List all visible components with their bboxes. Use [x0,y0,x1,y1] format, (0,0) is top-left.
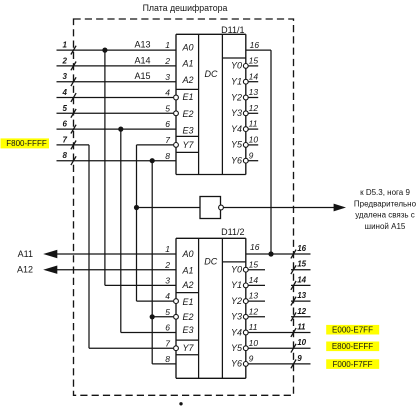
wire D11/2 E2 branch [152,316,173,318]
external stub pin 15 [291,269,311,271]
svg-text:8: 8 [165,151,170,161]
D11/2 pin 9 stub/wire [249,363,311,365]
arrowhead to D5.3 [334,204,346,212]
svg-text:9: 9 [297,354,302,363]
svg-text:10: 10 [297,338,306,347]
svg-text:7: 7 [63,135,68,144]
D11/1 pin 11 stub [249,128,259,130]
arrowhead A11 [43,250,57,258]
D11/1 input bubble row 4 [174,95,179,100]
svg-text:10: 10 [249,135,259,145]
svg-text:E3: E3 [183,325,194,335]
svg-text:A1: A1 [182,265,194,275]
external stub pin 13 [291,300,311,302]
svg-text:13: 13 [297,291,306,300]
wire connector pin 1 row [57,49,177,51]
wire D11/2 A2 row [105,284,176,286]
svg-text:4: 4 [62,88,68,97]
decoder U D11/2 body [176,238,246,378]
D11/2 output bubble Y5 [243,346,248,351]
connector slash right pin 16 [291,250,296,259]
connector pin slash 5 [71,109,76,118]
svg-text:DC: DC [205,69,218,79]
connector pin slash 7 [71,141,76,150]
connector pin slash 1 [71,46,76,55]
svg-text:6: 6 [165,323,170,333]
svg-text:Плата дешифратора: Плата дешифратора [143,3,228,13]
svg-text:E1: E1 [183,92,194,102]
svg-text:11: 11 [249,119,258,129]
wire vertical row8 down to D11/2 pin8 [151,161,153,364]
svg-text:Y3: Y3 [231,312,242,322]
svg-text:6: 6 [63,120,68,129]
D11/1 input bubble row 7 [174,143,179,148]
D11/1 output bubble Y2 [243,95,248,100]
D11/1 output bubble Y1 [243,79,248,84]
svg-text:A0: A0 [182,249,194,259]
svg-text:16: 16 [297,244,306,253]
svg-text:Y2: Y2 [231,92,242,102]
svg-text:F800-FFFF: F800-FFFF [6,139,47,148]
svg-text:A11: A11 [18,249,33,259]
svg-text:5: 5 [165,103,170,113]
svg-text:Y1: Y1 [231,280,242,290]
svg-text:6: 6 [165,119,170,129]
svg-text:15: 15 [297,260,306,269]
svg-text:9: 9 [249,150,254,160]
svg-text:A14: A14 [134,55,150,65]
svg-text:8: 8 [165,354,170,364]
svg-text:8: 8 [63,151,68,160]
junction on row1 at A13 branch [102,48,107,53]
svg-text:A0: A0 [182,43,194,53]
D11/2 output bubble Y2 [243,299,248,304]
svg-text:E3: E3 [183,126,194,136]
connector slash right pin 11 [291,328,296,337]
svg-text:Y3: Y3 [231,108,242,118]
D11/2 output bubble Y0 [243,267,248,272]
svg-text:E000-E7FF: E000-E7FF [332,326,373,335]
wire D11/1 Y7 output to left [137,144,174,146]
connector slash right pin 14 [291,281,296,290]
connector slash right pin 12 [291,312,296,321]
D11/1 pin 13 stub [249,97,259,99]
net label E800-EFFF (yellow) [326,342,379,352]
arrowhead A12 [43,266,57,274]
wire connector pin 7 row [57,144,90,146]
svg-text:1: 1 [165,244,170,254]
D11/1 output bubble Y6 [243,158,248,163]
D11/1 output bubble Y0 [243,64,248,69]
svg-text:7: 7 [165,338,170,348]
board boundary dashed box [74,19,294,395]
svg-text:13: 13 [249,291,259,301]
wire vertical row6 to D11/2 E3 [120,129,122,332]
junction pin16 net at D11/2 [268,251,273,256]
wire connector pin 2 row [57,65,177,67]
connector pin slash 4 [71,93,76,102]
connector slash right pin 13 [291,297,296,306]
svg-text:Y1: Y1 [231,77,242,87]
junction at E2 branch [150,314,155,319]
svg-text:3: 3 [63,72,68,81]
svg-text:13: 13 [249,87,259,97]
svg-text:E2: E2 [183,109,194,119]
connector pin slash 2 [71,62,76,71]
svg-text:Предварительно: Предварительно [354,199,417,208]
svg-text:D11/2: D11/2 [221,227,244,237]
svg-text:Y5: Y5 [231,140,243,150]
svg-text:удалена связь с: удалена связь с [355,211,415,220]
svg-text:5: 5 [165,307,170,317]
net label E000-E7FF (yellow) [326,325,379,335]
wire connector pin 8 row [57,160,177,162]
svg-text:E1: E1 [183,297,194,307]
svg-text:15: 15 [249,259,259,269]
svg-text:к D5.3, нога 9: к D5.3, нога 9 [360,188,410,197]
connector pin slash 3 [71,77,76,86]
wire vertical from connector pin7 to D11/2 Y7 [88,145,90,348]
D11/1 pin 14 stub [249,81,259,83]
svg-text:шиной А15: шиной А15 [365,222,406,231]
wire D11/1 pin16 stub [246,49,271,51]
wire connector pin 4 row [57,97,174,99]
D11/2 input bubble row 5 [174,314,179,319]
wire connector pin 6 row [57,128,177,130]
svg-text:4: 4 [165,88,170,98]
svg-text:A2: A2 [182,75,194,85]
wire D11/2 pin16 row out [246,253,311,255]
D11/2 pin 10 stub/wire [249,347,311,349]
D11/2 pin 14 stub/wire [249,284,266,286]
connector slash right pin 15 [291,265,296,274]
svg-text:1: 1 [165,40,170,50]
D11/2 output bubble Y3 [243,314,248,319]
wire buffer output to D5.3 [223,207,334,209]
svg-text:Y4: Y4 [231,124,242,134]
svg-text:2: 2 [62,56,68,65]
svg-text:14: 14 [297,275,306,284]
svg-text:11: 11 [297,323,306,332]
D11/2 pin 15 stub/wire [249,269,266,271]
svg-text:12: 12 [249,103,259,113]
D11/2 pin 11 stub/wire [249,332,311,334]
svg-text:Y0: Y0 [231,61,242,71]
D11/1 output bubble Y4 [243,127,248,132]
svg-text:A1: A1 [182,58,194,68]
wire vertical A13 to D11/2 A2 [104,50,106,285]
connector pin slash 8 [71,156,76,165]
stray mark bottom [179,402,182,405]
svg-text:Y2: Y2 [231,296,242,306]
D11/2 input bubble row 4 [174,299,179,304]
svg-text:A12: A12 [17,265,33,275]
wire buffer input [137,207,201,209]
D11/1 input bubble row 5 [174,111,179,116]
svg-text:14: 14 [249,275,259,285]
D11/2 pin 12 stub/wire [249,316,266,318]
connector slash right pin 9 [291,360,296,369]
buffer output bubble [219,205,224,210]
wire D11/2 E3 row [121,332,176,334]
D11/1 pin 9 stub [249,160,259,162]
junction on row8 branch [150,158,155,163]
svg-text:Y7: Y7 [183,140,195,150]
svg-text:Y4: Y4 [231,327,242,337]
D11/2 output bubble Y4 [243,330,248,335]
wire D11/2 pin8 row [152,363,176,365]
svg-text:14: 14 [249,71,259,81]
svg-text:Y6: Y6 [231,359,242,369]
connector slash right pin 10 [291,344,296,353]
D11/2 pin 13 stub/wire [249,300,266,302]
svg-text:12: 12 [249,306,259,316]
net label F800-FFFF (yellow) [1,138,50,148]
wire connector pin 5 row [57,112,174,114]
svg-text:A2: A2 [182,280,194,290]
svg-text:A15: A15 [134,71,150,81]
svg-text:D11/1: D11/1 [221,25,244,35]
svg-text:11: 11 [249,322,258,332]
D11/1 output bubble Y5 [243,143,248,148]
svg-text:16: 16 [250,40,260,50]
external stub pin 14 [291,284,311,286]
wire vertical pin16 net [270,50,272,254]
decoder U D11/1 body [176,34,246,174]
svg-text:3: 3 [165,72,170,82]
svg-text:9: 9 [249,354,254,364]
svg-text:16: 16 [250,242,260,252]
svg-text:F000-F7FF: F000-F7FF [332,360,372,369]
svg-text:2: 2 [164,260,170,270]
svg-text:5: 5 [63,104,68,113]
svg-text:Y0: Y0 [231,265,242,275]
wire D11/2 E1 row [137,300,174,302]
D11/2 output bubble Y1 [243,283,248,288]
svg-text:A13: A13 [134,40,150,50]
connector pin slash 6 [71,125,76,134]
D11/1 pin 15 stub [249,65,259,67]
wire vertical D11/1 Y7 down to D11/2 E1 [136,145,138,301]
junction buffer input branch [134,205,139,210]
D11/1 pin 12 stub [249,112,259,114]
svg-text:E800-EFFF: E800-EFFF [332,342,373,351]
svg-text:Y7: Y7 [183,343,195,353]
svg-text:DC: DC [204,257,217,267]
svg-text:Y6: Y6 [231,156,242,166]
D11/2 input bubble row 7 [174,346,179,351]
svg-text:1: 1 [63,41,68,50]
svg-text:2: 2 [164,56,170,66]
wire D11/2 Y7 row to bubble [89,347,173,349]
net label F000-F7FF (yellow) [326,359,379,369]
svg-text:E2: E2 [183,312,194,322]
external stub pin 12 [291,316,311,318]
D11/2 output bubble Y6 [243,362,248,367]
svg-text:15: 15 [249,56,259,66]
wire A12 out [57,269,177,271]
svg-text:7: 7 [165,135,170,145]
D11/1 pin 10 stub [249,144,259,146]
svg-text:12: 12 [297,307,306,316]
D11/1 output bubble Y3 [243,111,248,116]
wire connector pin 3 row [57,81,177,83]
svg-text:10: 10 [249,338,259,348]
buffer gate U2 body [200,197,221,219]
junction on row6 branch [118,127,123,132]
wire A11 out [57,253,177,255]
svg-text:Y5: Y5 [231,343,243,353]
svg-text:3: 3 [165,276,170,286]
svg-text:4: 4 [165,291,170,301]
